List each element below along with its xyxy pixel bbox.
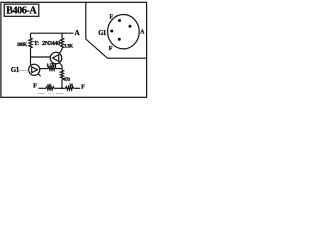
svg-text:36: 36	[69, 84, 73, 88]
svg-text:A: A	[74, 28, 80, 37]
svg-text:F: F	[33, 83, 37, 90]
svg-text:F: F	[81, 83, 85, 90]
svg-text:T:: T:	[34, 40, 39, 47]
svg-text:F: F	[109, 45, 113, 52]
svg-text:3.3K: 3.3K	[64, 44, 73, 50]
svg-text:G1: G1	[98, 30, 107, 37]
svg-text:1K: 1K	[47, 84, 52, 88]
svg-text:1.5M: 1.5M	[46, 63, 56, 69]
svg-text:2N3440: 2N3440	[42, 40, 60, 47]
svg-text:100K: 100K	[17, 42, 28, 48]
svg-text:B406-A: B406-A	[6, 6, 37, 17]
svg-text:F: F	[109, 14, 113, 21]
svg-text:470: 470	[63, 78, 70, 83]
